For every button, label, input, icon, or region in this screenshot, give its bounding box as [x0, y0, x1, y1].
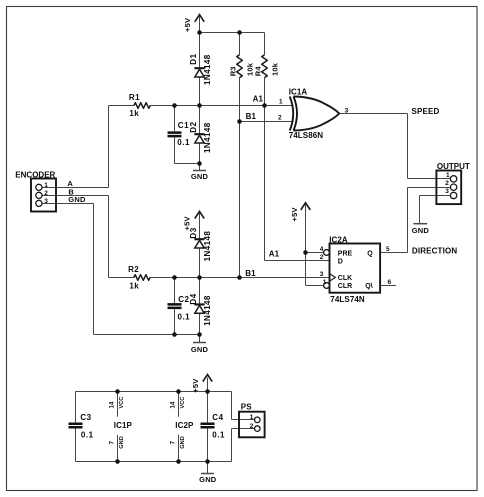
svg-text:VCC: VCC: [119, 397, 125, 409]
svg-text:R3: R3: [229, 66, 238, 76]
svg-text:GND: GND: [68, 195, 86, 204]
svg-text:14: 14: [109, 401, 116, 408]
svg-text:D2: D2: [189, 121, 198, 132]
svg-text:10k: 10k: [270, 62, 279, 76]
svg-text:GND: GND: [199, 475, 217, 484]
svg-text:C2: C2: [178, 295, 189, 304]
svg-text:C1: C1: [178, 121, 189, 130]
svg-text:VCC: VCC: [180, 397, 186, 409]
svg-text:2: 2: [250, 423, 254, 430]
svg-text:2: 2: [445, 180, 449, 187]
svg-text:A1: A1: [253, 94, 264, 103]
svg-text:D1: D1: [189, 53, 198, 64]
svg-text:1k: 1k: [129, 281, 139, 290]
svg-text:1: 1: [250, 414, 254, 421]
svg-text:GND: GND: [191, 172, 209, 181]
svg-text:GND: GND: [412, 226, 430, 235]
svg-text:Q\: Q\: [365, 283, 372, 290]
svg-text:6: 6: [388, 279, 392, 286]
svg-text:1N4148: 1N4148: [203, 295, 212, 326]
svg-text:3: 3: [445, 188, 449, 195]
svg-text:1: 1: [44, 182, 48, 189]
svg-text:7: 7: [109, 440, 116, 444]
svg-text:1N4148: 1N4148: [203, 54, 212, 85]
svg-text:ENCODER: ENCODER: [15, 170, 55, 179]
svg-text:CLK: CLK: [338, 275, 352, 282]
svg-text:0.1: 0.1: [81, 431, 94, 440]
svg-text:OUTPUT: OUTPUT: [437, 162, 470, 171]
svg-text:D3: D3: [189, 227, 198, 238]
svg-text:4: 4: [320, 246, 324, 253]
svg-text:D: D: [338, 259, 343, 266]
svg-text:B1: B1: [245, 269, 256, 278]
svg-text:3: 3: [345, 107, 349, 114]
svg-text:2: 2: [320, 254, 324, 261]
svg-text:PRE: PRE: [338, 250, 353, 257]
svg-text:0.1: 0.1: [177, 138, 190, 147]
svg-text:IC1P: IC1P: [114, 421, 133, 430]
svg-text:1: 1: [446, 172, 450, 179]
svg-text:1N4148: 1N4148: [203, 231, 212, 262]
svg-text:7: 7: [170, 440, 177, 444]
svg-text:R4: R4: [253, 66, 262, 77]
svg-text:R2: R2: [128, 265, 139, 274]
svg-text:R1: R1: [129, 93, 140, 102]
svg-text:74LS86N: 74LS86N: [289, 131, 324, 140]
svg-text:3: 3: [44, 198, 48, 205]
svg-text:B1: B1: [246, 112, 257, 121]
svg-text:1: 1: [279, 98, 283, 105]
svg-text:14: 14: [170, 401, 177, 408]
svg-text:C4: C4: [212, 413, 223, 422]
svg-text:74LS74N: 74LS74N: [330, 295, 365, 304]
svg-text:IC2A: IC2A: [329, 236, 348, 245]
svg-text:Q: Q: [367, 251, 373, 258]
svg-text:2: 2: [278, 114, 282, 121]
svg-text:3: 3: [320, 271, 324, 278]
svg-text:GND: GND: [180, 436, 186, 448]
svg-text:GND: GND: [191, 345, 209, 354]
svg-text:GND: GND: [119, 436, 125, 448]
svg-text:CLR: CLR: [338, 283, 352, 290]
svg-text:DIRECTION: DIRECTION: [412, 247, 457, 256]
svg-text:D4: D4: [189, 293, 198, 304]
svg-text:5: 5: [386, 246, 390, 253]
svg-text:+5V: +5V: [191, 379, 200, 393]
svg-text:0.1: 0.1: [178, 313, 191, 322]
svg-text:IC2P: IC2P: [175, 421, 194, 430]
svg-text:PS: PS: [241, 403, 252, 412]
svg-text:+5V: +5V: [183, 18, 192, 32]
svg-text:C3: C3: [80, 413, 91, 422]
svg-text:SPEED: SPEED: [412, 107, 440, 116]
svg-text:1k: 1k: [129, 109, 139, 118]
svg-text:A1: A1: [269, 250, 280, 259]
svg-text:1: 1: [323, 279, 327, 286]
svg-text:0.1: 0.1: [212, 431, 225, 440]
svg-text:1N4148: 1N4148: [203, 122, 212, 153]
svg-text:IC1A: IC1A: [289, 88, 308, 97]
svg-text:+5V: +5V: [290, 207, 299, 221]
svg-text:2: 2: [44, 190, 48, 197]
